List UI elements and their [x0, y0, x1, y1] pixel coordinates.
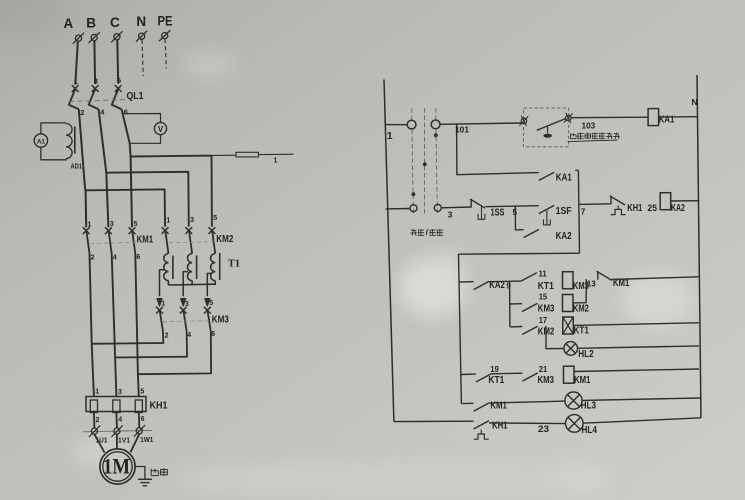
phase label A — [64, 16, 74, 31]
svg-text:3: 3 — [110, 221, 114, 228]
QL1 label — [127, 90, 144, 102]
wire sub-rail to KM1 aux — [461, 402, 473, 404]
wire number 19 — [490, 365, 499, 374]
float switch dashed box — [524, 108, 569, 147]
svg-text:15: 15 — [539, 293, 548, 302]
wire KM2 coil up to node 13 — [573, 279, 586, 303]
svg-text:KH1: KH1 — [627, 203, 642, 214]
1SS pushbutton actuator — [478, 205, 485, 219]
KM3 aux NO contact (15) — [522, 303, 537, 311]
contactor coil KM3 — [563, 272, 574, 289]
svg-text:HL4: HL4 — [582, 425, 598, 436]
thermal relay KH1 — [86, 397, 146, 413]
svg-text:KM3: KM3 — [212, 314, 229, 326]
svg-text:7: 7 — [581, 208, 586, 217]
svg-text:2: 2 — [80, 108, 84, 117]
terminal N — [136, 31, 147, 42]
wires T1 taps to KM3 with arrows — [157, 270, 211, 306]
svg-text:KM2: KM2 — [216, 233, 233, 245]
label KH1 (aux) — [492, 421, 508, 432]
svg-text:3: 3 — [94, 77, 98, 86]
label KM1 (aux HL3) — [490, 400, 507, 411]
KM2 coil label — [573, 303, 589, 314]
contactor coil KM1 — [564, 366, 575, 383]
N rail — [697, 75, 701, 418]
wire 9 segment — [489, 280, 521, 283]
svg-text:V: V — [158, 125, 164, 134]
wire ammeter loop bottom — [41, 147, 66, 160]
wire KM1 aux to HL3 — [489, 401, 565, 403]
wire 103 to KA1 coil — [571, 116, 648, 119]
contactor KM3 main contacts — [156, 307, 211, 332]
KM3 aux NO contact (21) — [522, 373, 537, 381]
KM3 label — [212, 314, 229, 326]
selector linkage dash-dot lines — [412, 108, 438, 216]
relay coil KA2 — [660, 193, 671, 210]
KM3 linkage dashed — [163, 321, 211, 322]
wire motor line W — [135, 254, 139, 397]
svg-text:4: 4 — [113, 254, 117, 261]
label 接地 — [151, 468, 167, 476]
wire number 5 — [513, 208, 518, 217]
label HL2 — [578, 349, 594, 360]
wire KA2 coil to N — [671, 200, 699, 202]
svg-text:9: 9 — [506, 282, 511, 291]
svg-text:1M: 1M — [103, 454, 130, 479]
selector stop switch 1SS (NC) — [470, 199, 485, 208]
svg-text:1: 1 — [88, 221, 92, 228]
KH1 aux thermal element — [474, 430, 489, 440]
wire 17 segment — [510, 326, 522, 328]
KM3 pole numbers 2 4 6 — [165, 331, 216, 339]
wire phase C drop — [116, 40, 119, 83]
wire number 13 — [587, 280, 596, 289]
KH1 NC contact (control) — [610, 196, 625, 205]
indicator lamp HL4 — [566, 415, 584, 433]
KA1 NO contact — [539, 172, 554, 180]
label 至潜位浮球控制 underlined — [568, 133, 620, 142]
svg-text:QL1: QL1 — [127, 90, 144, 102]
svg-text:19: 19 — [490, 365, 499, 374]
svg-text:2: 2 — [165, 333, 169, 340]
svg-text:6: 6 — [141, 416, 145, 423]
svg-text:6: 6 — [124, 108, 128, 117]
svg-text:A1: A1 — [37, 138, 46, 145]
wire number 103 — [582, 122, 596, 131]
wire ammeter loop top — [41, 123, 66, 134]
wire KM3 pole2 tie — [92, 332, 164, 344]
terminal A — [73, 33, 84, 44]
svg-text:1SF: 1SF — [556, 206, 572, 217]
KM2 aux NO contact (17) — [522, 326, 537, 334]
label KM2 (aux) — [538, 326, 555, 337]
KA2 coil label — [671, 203, 685, 214]
label KA2 (aux) — [489, 280, 505, 291]
KM2 label — [216, 233, 233, 245]
KM1 NC interlock — [597, 271, 612, 280]
wire KM3 pole6 tie — [138, 332, 211, 375]
indicator lamp HL3 — [565, 392, 582, 409]
KM1 pole numbers 2 4 6 — [91, 254, 141, 261]
svg-text:6: 6 — [211, 331, 215, 338]
svg-text:T1: T1 — [228, 259, 240, 270]
wire number 1 (control rail) — [387, 130, 393, 142]
wire number 11 — [539, 269, 547, 278]
svg-text:N: N — [136, 14, 146, 29]
wire bottom row left — [394, 420, 474, 422]
terminal C — [111, 31, 122, 42]
svg-text:1: 1 — [161, 301, 165, 308]
KM2 linkage dashed — [169, 242, 216, 243]
svg-text:KM2: KM2 — [573, 303, 589, 314]
float weight — [543, 126, 552, 138]
motor terminal 1V1 — [111, 425, 122, 437]
label KH1 (control) — [627, 203, 642, 214]
wire 1 with fuse — [131, 152, 294, 157]
svg-text:3: 3 — [190, 217, 194, 224]
wire PE dashed drop — [165, 39, 166, 68]
QL1 pole numbers 1 3 5 — [74, 76, 121, 86]
svg-text:HL2: HL2 — [578, 349, 594, 360]
autotransformer T1 coils — [164, 253, 215, 285]
selector switch contact row2 — [410, 204, 441, 211]
wire 3 — [441, 206, 471, 209]
wire phase C to KM2 pole5 — [131, 156, 212, 227]
T1 star bus — [168, 283, 215, 286]
wire 25 — [625, 202, 661, 205]
KT1 coil label — [574, 326, 590, 337]
svg-text:21: 21 — [539, 365, 548, 374]
svg-text:1SS: 1SS — [491, 208, 505, 219]
AD1 core bar — [74, 127, 76, 154]
svg-text:C: C — [110, 15, 120, 30]
svg-text:KA1: KA1 — [659, 114, 675, 125]
KH1 thermal element — [611, 205, 626, 214]
phase label B — [86, 16, 96, 31]
svg-text:5: 5 — [140, 388, 144, 395]
wire number 23 — [538, 424, 549, 434]
start switch 1SF (NO) — [539, 205, 554, 213]
wire phase C QL1-KM1 — [122, 109, 132, 227]
motor terminal 1U1 — [89, 425, 100, 437]
label 手动/自动 — [410, 227, 443, 237]
svg-text:B: B — [86, 16, 96, 31]
wire 101 — [440, 123, 521, 124]
selector switch contact row1 — [407, 120, 440, 129]
svg-text:PE: PE — [158, 14, 173, 29]
wire 21 segment — [491, 372, 522, 375]
svg-text:5: 5 — [134, 221, 138, 228]
svg-text:KM3: KM3 — [538, 375, 555, 386]
svg-text:KT1: KT1 — [538, 281, 554, 292]
svg-text:KM3: KM3 — [538, 303, 555, 314]
left control rail (wire 1) — [384, 80, 394, 422]
wire phase B QL1-KM1 — [99, 109, 109, 227]
wire number 3 — [448, 211, 453, 220]
terminal PE — [159, 30, 170, 41]
terminal B — [89, 32, 100, 43]
svg-text:2: 2 — [96, 417, 100, 424]
ammeter A1 — [34, 134, 47, 147]
KA2 aux NO contact — [474, 281, 489, 289]
svg-text:1V1: 1V1 — [118, 435, 130, 444]
wire node7 to KH1 contact — [579, 203, 611, 206]
float switch blade — [537, 119, 566, 131]
KH1 output numbers 2 4 6 — [96, 416, 145, 424]
motor terminal strike line — [83, 430, 152, 431]
KM3 pole numbers 1 3 5 — [161, 300, 213, 308]
svg-text:4: 4 — [187, 332, 191, 339]
KM1 coil label — [574, 375, 591, 386]
svg-text:1: 1 — [95, 389, 99, 396]
wire phase B to KM2 pole3 — [106, 172, 189, 227]
wire drop to HL2 — [546, 326, 564, 349]
KM1 linkage dashed — [90, 242, 136, 243]
KT1 delayed NO contact (11) — [521, 273, 536, 281]
wire HL4 to N — [583, 418, 701, 423]
wire KA1 contact to node 7 — [575, 170, 579, 253]
svg-text:5: 5 — [117, 76, 121, 85]
svg-text:4: 4 — [118, 417, 122, 424]
KM1 pole numbers 1 3 5 — [88, 221, 138, 228]
wire KA1 coil to N — [659, 116, 698, 118]
label KM1 (interlock) — [613, 278, 630, 289]
protective-earth label PE — [158, 14, 173, 29]
label 1SF — [556, 206, 572, 217]
wire voltmeter return — [130, 135, 161, 144]
svg-text:25: 25 — [648, 203, 658, 213]
svg-text:3: 3 — [448, 211, 453, 220]
svg-text:2: 2 — [91, 255, 95, 262]
svg-text:KT1: KT1 — [488, 375, 504, 386]
svg-text:KA1: KA1 — [556, 172, 572, 183]
svg-text:13: 13 — [587, 280, 596, 289]
wire motor to earth — [135, 467, 145, 479]
current transformer AD1 coil — [66, 124, 72, 159]
contactor coil KM2 — [563, 295, 574, 312]
wire KM3 coil row to N — [612, 277, 699, 280]
svg-text:KM1: KM1 — [574, 375, 591, 386]
svg-text:3: 3 — [118, 389, 122, 396]
circuit breaker QL1 poles — [69, 85, 122, 109]
svg-text:17: 17 — [539, 316, 548, 325]
voltmeter V — [154, 122, 166, 134]
node7 vertical through KA2 row — [578, 228, 580, 230]
wire 15 segment — [510, 303, 522, 305]
wire 5 — [485, 206, 538, 207]
phase label C — [110, 15, 120, 30]
motor 1M — [100, 449, 135, 484]
label HL3 — [581, 400, 597, 411]
wire number 25 — [648, 203, 658, 213]
T1 label — [228, 259, 240, 270]
wire number 9 — [506, 282, 511, 291]
wire phase A to KM2 pole1 — [86, 189, 166, 226]
KA2 NO contact — [524, 229, 554, 238]
float switch terminal right — [564, 113, 573, 123]
wire rail to selector row2 — [386, 208, 410, 210]
AD1 label — [71, 162, 83, 171]
svg-text:KA2: KA2 — [556, 231, 572, 242]
svg-text:KM1: KM1 — [137, 234, 154, 246]
motor terminal 1W1 — [134, 425, 145, 437]
label N — [692, 97, 698, 107]
wire 101 drop to KA1 contact — [457, 124, 539, 174]
wire number 1 (fuse line) — [274, 158, 278, 165]
QL1 linkage dashed — [69, 100, 126, 102]
KH1 aux NO contact (HL4) — [474, 421, 489, 429]
label KT1 (contact) — [538, 281, 554, 292]
svg-text:N: N — [692, 97, 698, 107]
wire motor line U — [90, 254, 94, 397]
KM1 label — [137, 234, 154, 246]
svg-text:KM1: KM1 — [490, 400, 507, 411]
svg-text:3: 3 — [185, 301, 189, 308]
selector position dots — [412, 133, 438, 196]
node 9 drop — [509, 282, 511, 327]
wire to voltmeter — [124, 114, 161, 123]
label 1SS — [491, 208, 505, 219]
wire KM3 pole4 tie — [115, 332, 187, 358]
KM2 pole numbers 1 3 5 — [166, 215, 217, 224]
wire KT1 coil to N — [573, 323, 698, 326]
wire 5 drop to KA2 contact — [515, 206, 523, 230]
wire phase B drop — [93, 41, 96, 84]
svg-text:5: 5 — [213, 215, 217, 222]
svg-text:A: A — [64, 16, 74, 31]
1SF pushbutton actuator — [544, 211, 551, 225]
T1 core bars — [173, 253, 220, 280]
svg-text:1W1: 1W1 — [140, 435, 153, 444]
wire number 17 — [539, 316, 548, 325]
svg-text:KH1: KH1 — [150, 400, 168, 412]
earth ground symbol — [138, 479, 152, 486]
label KM3 (aux 21) — [538, 375, 555, 386]
KH1 label (power) — [150, 400, 168, 412]
label KM3 (aux) — [538, 303, 555, 314]
wire number 21 — [539, 365, 548, 374]
KT1 aux NO contact (19) — [476, 374, 491, 382]
timer coil KT1 — [563, 317, 574, 334]
wire HL3 to N — [582, 398, 700, 400]
wire 23 segment — [489, 422, 565, 425]
wires KH1 to motor terminals — [94, 413, 139, 429]
KA1 coil label — [659, 114, 675, 125]
svg-text:1: 1 — [74, 77, 78, 86]
wire KM1 coil to N — [574, 369, 699, 372]
svg-text:103: 103 — [582, 122, 596, 131]
KM1 aux NO contact (HL3) — [474, 403, 489, 411]
svg-text:1: 1 — [387, 130, 393, 142]
svg-text:5: 5 — [209, 300, 213, 307]
wire N dashed drop — [142, 40, 143, 76]
contactor KM1 main contacts — [83, 227, 136, 253]
wire terminals to motor — [94, 434, 139, 453]
label 1V1 — [118, 435, 130, 444]
label HL4 — [582, 425, 598, 436]
svg-text:AD1: AD1 — [71, 162, 83, 171]
label 1U1 — [96, 436, 108, 445]
svg-text:6: 6 — [136, 254, 140, 261]
neutral label N — [136, 14, 146, 29]
wire rail to selector row1 — [385, 124, 407, 126]
wire number 7 — [581, 208, 586, 217]
svg-text:1: 1 — [274, 158, 278, 165]
svg-text:KT1: KT1 — [574, 326, 590, 337]
float switch terminal left — [520, 116, 529, 126]
wire HL2 to N — [578, 346, 699, 348]
wire number 15 — [539, 293, 548, 302]
wire phase A QL1-KM1 — [79, 109, 86, 227]
svg-text:11: 11 — [539, 269, 547, 278]
QL1 pole numbers 2 4 6 — [80, 107, 128, 117]
contactor KM2 main contacts — [162, 227, 216, 253]
KA2 contact label — [556, 231, 572, 242]
svg-text:HL3: HL3 — [581, 400, 597, 411]
svg-text:1: 1 — [166, 217, 170, 224]
label KT1 (aux 19) — [488, 375, 504, 386]
wire node7 drop to sub-rail — [459, 253, 580, 254]
KM3 coil label — [573, 281, 589, 292]
wire motor line V — [112, 254, 117, 397]
KA1 contact label — [556, 172, 572, 183]
relay coil KA1 — [648, 109, 659, 126]
wire number 101 — [455, 126, 469, 135]
KH1 input numbers 1 3 5 — [95, 388, 144, 396]
wire sub-rail to KA2 aux — [459, 281, 474, 283]
svg-text:KA2: KA2 — [671, 203, 685, 214]
wire sub-rail to KT1 aux — [461, 373, 476, 375]
wire phase A drop — [75, 42, 78, 85]
sub rail — [459, 254, 462, 403]
svg-text:23: 23 — [538, 424, 549, 434]
label 1W1 — [140, 435, 153, 444]
indicator lamp HL2 — [564, 342, 578, 356]
